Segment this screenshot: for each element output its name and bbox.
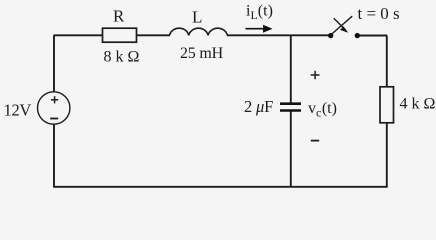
switch blade [332,16,352,34]
svg-text:8 k Ω: 8 k Ω [104,49,140,66]
wire switch right dot to top-right corner [357,35,387,37]
source plus sign [51,96,58,103]
current arrow iL(t) [246,25,273,33]
svg-text:12V: 12V [4,101,32,120]
inductor L coil [170,28,228,35]
wire top-left segment [54,34,104,36]
svg-text:4 k Ω: 4 k Ω [400,96,436,113]
wire capacitor branch upper [290,36,292,104]
wire bottom [54,186,388,188]
wire left side upper [53,36,55,93]
resistor R body [103,28,137,42]
wire L to switch left dot [227,34,331,36]
wire right side upper [386,36,388,88]
source minus sign [50,118,58,120]
svg-text:vc(t): vc(t) [308,100,337,120]
switch right contact dot [355,33,360,38]
wire capacitor branch lower [290,111,292,188]
svg-text:t = 0 s: t = 0 s [358,4,400,23]
capacitor C1 top plate [280,102,301,105]
wire between R and L [136,34,170,36]
svg-text:2 μF: 2 μF [244,97,273,116]
switch motion arrow [334,18,349,33]
svg-text:L: L [192,8,202,27]
capacitor minus polarity [311,140,319,142]
capacitor bottom plate [280,109,301,112]
wire right side lower [386,123,388,188]
svg-text:iL(t): iL(t) [246,3,273,23]
wire left side lower [53,124,55,188]
source V1 12V circle [38,92,70,124]
switch S1 left contact dot [328,33,333,38]
capacitor plus polarity [311,71,320,79]
svg-text:25 mH: 25 mH [180,45,224,62]
svg-text:R: R [113,7,125,26]
resistor R2 body vertical [380,87,394,123]
